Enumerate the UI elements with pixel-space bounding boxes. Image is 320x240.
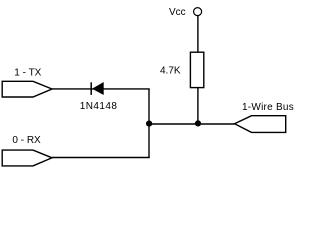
port 1-TX (2, 81, 52, 97)
wire left vertical (148, 89, 150, 158)
junction node B (195, 120, 201, 126)
port 1-Wire-Bus (235, 116, 286, 133)
wire Vcc to resistor (197, 16, 199, 52)
diode D1 cathode bar (90, 82, 92, 95)
diode D1 triangle (92, 82, 104, 95)
wire resistor to junction (197, 88, 199, 124)
svg-text:1 - TX: 1 - TX (14, 68, 41, 79)
junction node A (146, 121, 152, 127)
svg-text:0 - RX: 0 - RX (12, 135, 41, 146)
terminal Vcc (194, 8, 202, 16)
port 0-RX (2, 150, 52, 166)
svg-text:1N4148: 1N4148 (80, 101, 118, 112)
wire TX to corner (52, 88, 150, 90)
svg-text:1-Wire Bus: 1-Wire Bus (242, 102, 294, 113)
wire bus horizontal (149, 123, 235, 125)
svg-text:Vcc: Vcc (169, 7, 186, 18)
resistor R1 4.7K (190, 52, 203, 87)
svg-text:4.7K: 4.7K (160, 66, 181, 77)
wire RX to corner (52, 157, 150, 159)
